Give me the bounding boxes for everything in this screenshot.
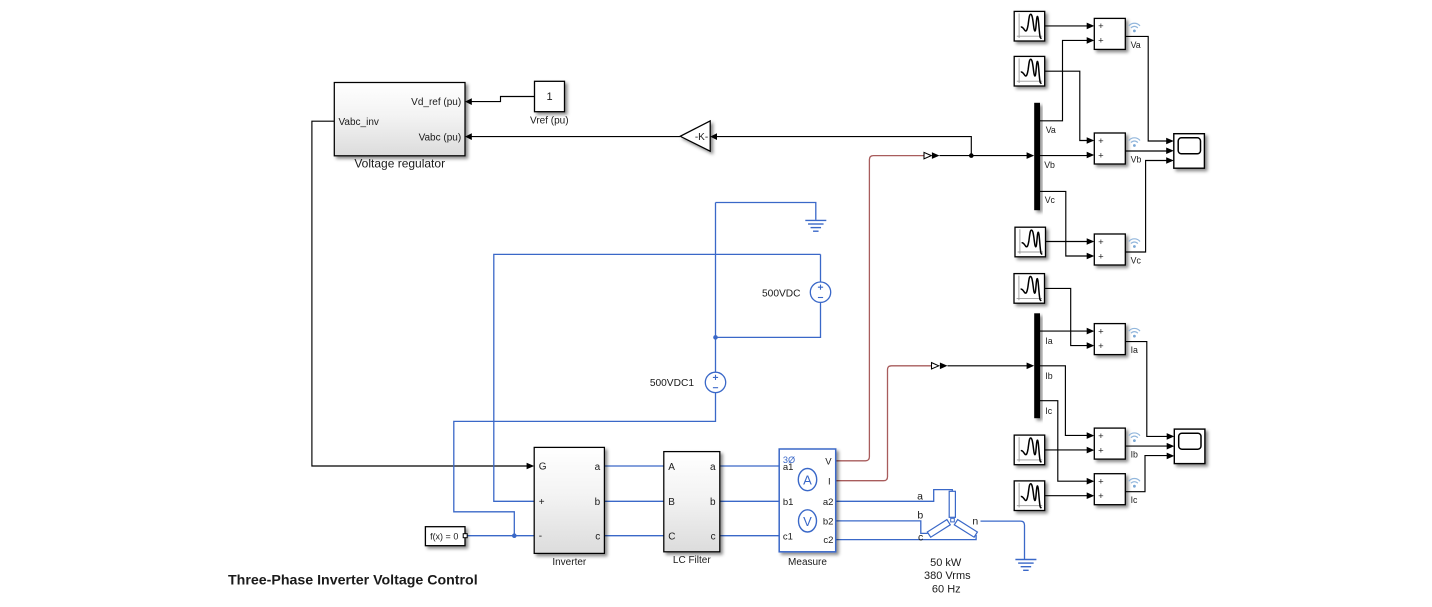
svg-text:Ic: Ic [1045,406,1052,416]
svg-text:b: b [595,497,601,508]
svg-text:50 kW: 50 kW [930,557,962,569]
svg-text:b2: b2 [823,517,834,528]
svg-text:a1: a1 [783,462,794,473]
svg-text:a: a [595,462,601,473]
svg-text:+: + [1098,36,1104,47]
svg-text:+: + [1098,237,1104,248]
svg-text:A: A [803,473,812,488]
svg-text:Three-Phase Inverter Voltage C: Three-Phase Inverter Voltage Control [228,572,478,588]
svg-text:Ia: Ia [1131,345,1138,355]
svg-text:Va: Va [1131,40,1141,50]
svg-text:c1: c1 [783,531,793,542]
svg-text:b: b [917,509,923,521]
svg-text:500VDC: 500VDC [762,288,801,299]
svg-text:Measure: Measure [788,557,827,568]
svg-text:Vb: Vb [1131,154,1142,164]
svg-text:a: a [710,462,716,473]
svg-text:b: b [710,497,716,508]
svg-text:Vc: Vc [1131,255,1142,265]
svg-text:Inverter: Inverter [552,557,587,568]
svg-text:+: + [1098,326,1104,337]
svg-text:I: I [828,476,831,487]
svg-text:-: - [539,531,542,542]
svg-text:V: V [825,456,832,467]
svg-text:Vabc_inv: Vabc_inv [339,117,379,128]
svg-text:a2: a2 [823,497,834,508]
svg-text:Ib: Ib [1131,450,1138,460]
svg-text:+: + [1098,477,1104,488]
svg-text:C: C [668,531,675,542]
svg-text:b1: b1 [783,497,794,508]
svg-text:+: + [1098,341,1104,352]
svg-text:+: + [1098,136,1104,147]
svg-text:380 Vrms: 380 Vrms [924,570,971,582]
svg-text:c: c [918,531,923,543]
svg-text:Vabc (pu): Vabc (pu) [419,132,462,143]
svg-text:+: + [1098,491,1104,502]
svg-text:LC Filter: LC Filter [673,555,711,566]
svg-text:G: G [539,462,547,473]
svg-text:+: + [1098,251,1104,262]
svg-text:A: A [668,462,675,473]
svg-text:Ia: Ia [1045,336,1052,346]
svg-text:B: B [668,497,675,508]
svg-text:-K-: -K- [695,132,708,143]
svg-text:+: + [1098,21,1104,32]
svg-text:Vd_ref (pu): Vd_ref (pu) [411,97,461,108]
svg-text:500VDC1: 500VDC1 [650,378,695,389]
svg-text:+: + [1098,150,1104,161]
svg-text:Ic: Ic [1131,495,1138,505]
svg-text:1: 1 [546,91,552,103]
svg-text:c2: c2 [823,535,833,546]
svg-text:+: + [1098,445,1104,456]
svg-text:Vc: Vc [1045,195,1056,205]
svg-text:f(x) = 0: f(x) = 0 [430,532,458,542]
svg-text:c: c [595,531,600,542]
svg-text:+: + [539,497,545,508]
svg-text:Vref (pu): Vref (pu) [530,116,569,127]
svg-text:Vb: Vb [1044,160,1055,170]
svg-text:Va: Va [1046,125,1056,135]
svg-text:+: + [1098,431,1104,442]
svg-text:Voltage regulator: Voltage regulator [354,156,445,170]
svg-text:60 Hz: 60 Hz [932,583,961,595]
svg-text:a: a [917,490,923,502]
svg-text:n: n [972,516,978,528]
svg-text:Ib: Ib [1045,371,1052,381]
svg-text:V: V [803,514,812,529]
svg-text:c: c [711,531,716,542]
